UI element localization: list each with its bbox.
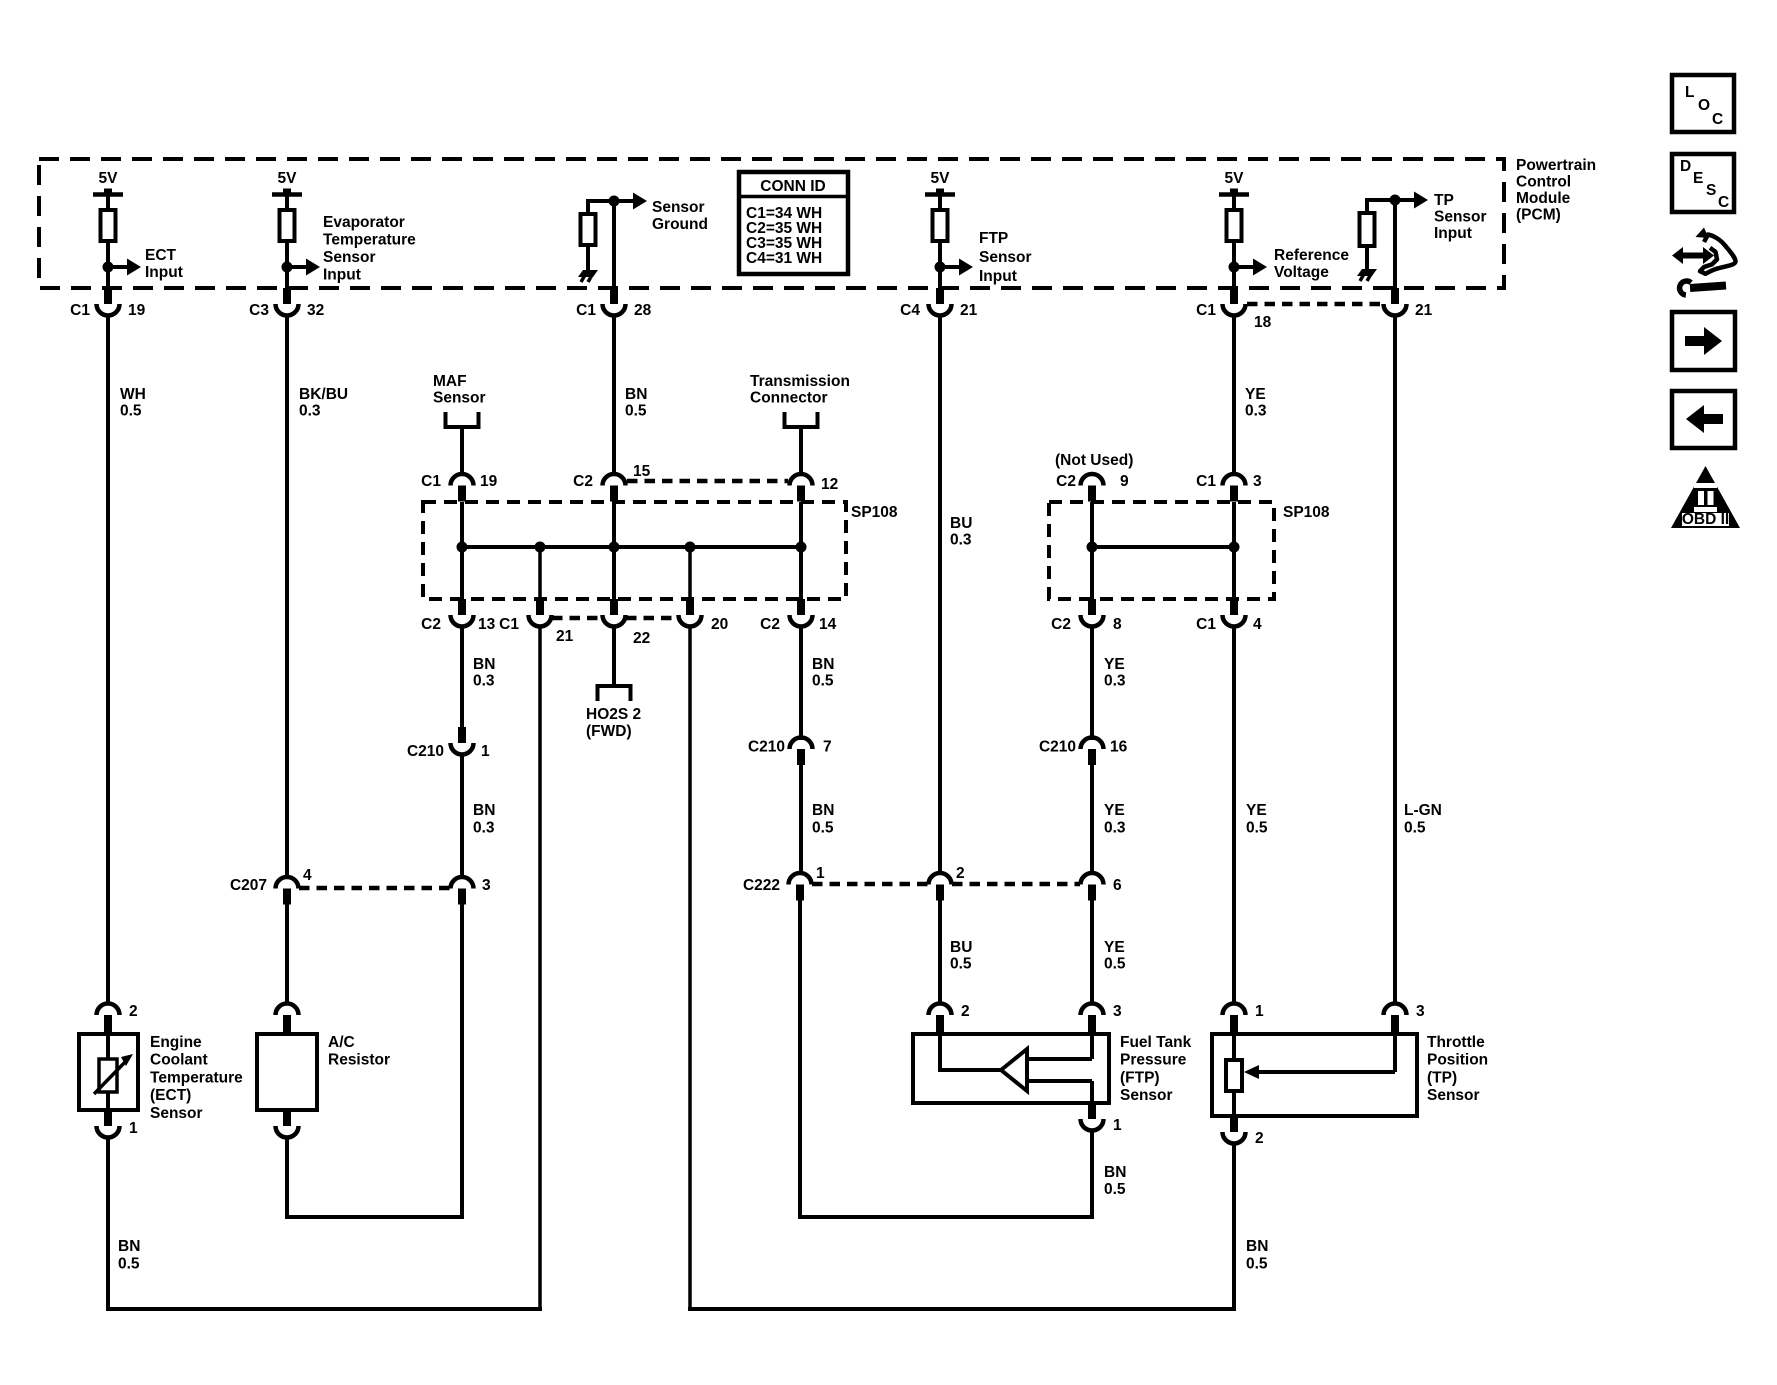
- wire ECT return: [106, 1137, 110, 1311]
- svg-text:0.3: 0.3: [1104, 820, 1126, 837]
- dashed link C207: [299, 886, 450, 891]
- svg-text:Sensor: Sensor: [979, 249, 1032, 266]
- svg-text:7: 7: [823, 739, 832, 756]
- junction dot 1: [457, 542, 468, 553]
- ECT internal wire: [106, 1034, 110, 1110]
- svg-text:BN: BN: [1246, 1238, 1268, 1255]
- svg-text:C210: C210: [1039, 739, 1076, 756]
- svg-text:BN: BN: [625, 386, 647, 403]
- svg-text:C1: C1: [1196, 616, 1216, 633]
- ECT bottom connector pin 1: [104, 1110, 112, 1126]
- svg-text:C1: C1: [576, 302, 596, 319]
- svg-text:YE: YE: [1104, 656, 1125, 673]
- svg-text:4: 4: [1253, 616, 1262, 633]
- svg-text:0.3: 0.3: [1104, 673, 1126, 690]
- CONN ID table: [739, 172, 848, 274]
- svg-text:5V: 5V: [99, 170, 119, 187]
- wire L-GN: [1393, 315, 1397, 1004]
- ground symbol PCM: [578, 270, 598, 277]
- svg-text:Sensor: Sensor: [433, 390, 486, 407]
- dashed link 21-22: [552, 616, 602, 621]
- svg-text:O: O: [1698, 97, 1710, 114]
- AC resistor top connector: [283, 1015, 291, 1034]
- svg-text:14: 14: [819, 616, 837, 633]
- TP top connector pin 1: [1230, 1015, 1238, 1034]
- svg-text:HO2S 2: HO2S 2: [586, 706, 641, 723]
- wire c207-3 down: [460, 904, 464, 1219]
- bus wire C1-21 leg: [538, 547, 542, 599]
- wire BN 0.3 upper: [460, 626, 464, 727]
- svg-text:BN: BN: [473, 802, 495, 819]
- svg-text:0.5: 0.5: [812, 820, 834, 837]
- junction dot 2: [535, 542, 546, 553]
- svg-text:A/C: A/C: [328, 1034, 355, 1051]
- svg-text:SP108: SP108: [851, 504, 898, 521]
- svg-text:C207: C207: [230, 877, 267, 894]
- TP bottom connector pin 2: [1230, 1116, 1238, 1132]
- svg-text:0.3: 0.3: [299, 403, 321, 420]
- svg-text:4: 4: [303, 867, 312, 884]
- wire FTP return: [1090, 1130, 1094, 1219]
- svg-text:Evaporator: Evaporator: [323, 214, 405, 231]
- wire evap to AC resistor: [285, 904, 289, 1004]
- svg-text:Sensor: Sensor: [1427, 1087, 1480, 1104]
- dashed link C222 1-2: [812, 882, 928, 887]
- FTP sensor box: [913, 1034, 1109, 1103]
- connector C222 pin 1: [789, 873, 812, 884]
- svg-text:Transmission: Transmission: [750, 373, 850, 390]
- svg-text:BK/BU: BK/BU: [299, 386, 348, 403]
- svg-text:C222: C222: [743, 877, 780, 894]
- junction dot 5: [796, 542, 807, 553]
- svg-text:21: 21: [556, 628, 574, 645]
- FTP top connector pin 2: [936, 1015, 944, 1034]
- bus wire 20 leg: [688, 547, 692, 599]
- connector C210 pin 16: [1081, 738, 1104, 749]
- svg-text:Sensor: Sensor: [1120, 1087, 1173, 1104]
- wire BN 0.3 lower: [460, 754, 464, 879]
- connector C1 pin 3: [1223, 474, 1246, 486]
- svg-text:Input: Input: [145, 264, 183, 281]
- svg-text:Coolant: Coolant: [150, 1052, 208, 1069]
- icon LOC box: [1672, 75, 1734, 132]
- svg-text:0.5: 0.5: [1104, 956, 1126, 973]
- dashed link 22-20: [626, 616, 678, 621]
- svg-text:L-GN: L-GN: [1404, 802, 1442, 819]
- svg-text:C1: C1: [421, 473, 441, 490]
- wire AC return: [285, 1137, 289, 1219]
- splice bus left: [462, 545, 801, 549]
- svg-text:5V: 5V: [931, 170, 951, 187]
- FTP top connector pin 3: [1088, 1015, 1096, 1034]
- connector C2 pin 8: [1088, 599, 1096, 615]
- reference voltage arrow: [1229, 262, 1240, 273]
- TP internal potentiometer: [1232, 1034, 1236, 1060]
- svg-text:1: 1: [816, 865, 825, 882]
- svg-text:Connector: Connector: [750, 390, 828, 407]
- connector C2 pin 13: [458, 599, 466, 615]
- svg-text:20: 20: [711, 616, 728, 633]
- svg-text:BN: BN: [812, 802, 834, 819]
- svg-text:21: 21: [1415, 302, 1433, 319]
- svg-text:Input: Input: [323, 267, 361, 284]
- FTP bottom connector pin 1: [1088, 1103, 1096, 1119]
- svg-text:21: 21: [960, 302, 978, 319]
- svg-text:0.5: 0.5: [625, 403, 647, 420]
- splice bus right: [1092, 545, 1234, 549]
- FTP internal symbol: [938, 1034, 942, 1070]
- svg-text:Sensor: Sensor: [150, 1105, 203, 1122]
- wire BU 0.5: [938, 900, 942, 1004]
- svg-text:1: 1: [1255, 1003, 1264, 1020]
- svg-text:Sensor: Sensor: [652, 199, 705, 216]
- junction dot 6: [1087, 542, 1098, 553]
- svg-text:16: 16: [1110, 739, 1128, 756]
- svg-text:2: 2: [129, 1003, 138, 1020]
- svg-text:C1: C1: [499, 616, 519, 633]
- svg-text:C210: C210: [748, 739, 785, 756]
- connector C222 pin 6: [1081, 873, 1104, 884]
- wire YE upper: [1232, 315, 1236, 476]
- svg-text:L: L: [1685, 84, 1694, 101]
- svg-text:(ECT): (ECT): [150, 1087, 191, 1104]
- svg-text:Temperature: Temperature: [323, 232, 416, 249]
- svg-text:5V: 5V: [278, 170, 298, 187]
- connector C1 pin 21 lower: [536, 599, 544, 615]
- SP108 right box: [1049, 502, 1274, 599]
- svg-text:19: 19: [128, 302, 146, 319]
- AC resistor bottom connector: [283, 1110, 291, 1126]
- wire MAF to connector: [460, 427, 464, 476]
- junction dot 7: [1229, 542, 1240, 553]
- wire 21 to ECT return: [538, 626, 542, 1311]
- svg-text:WH: WH: [120, 386, 146, 403]
- svg-text:Control: Control: [1516, 174, 1571, 191]
- svg-text:FTP: FTP: [979, 230, 1008, 247]
- dashed link C2-15 to 12: [627, 479, 788, 484]
- icon back arrow box: [1672, 391, 1735, 448]
- icon wrench-arrow: [1682, 253, 1704, 259]
- connector C1 pin 28: [610, 288, 618, 304]
- dashed link C1-18 to 21: [1247, 302, 1382, 307]
- svg-text:BN: BN: [473, 656, 495, 673]
- svg-text:0.5: 0.5: [1404, 820, 1426, 837]
- svg-text:0.5: 0.5: [950, 956, 972, 973]
- svg-text:Fuel Tank: Fuel Tank: [1120, 1034, 1192, 1051]
- svg-text:8: 8: [1113, 616, 1122, 633]
- TP input resistor stub: [1367, 198, 1395, 202]
- bus wire C2-15 leg: [612, 502, 616, 599]
- wire TP return: [1232, 1143, 1236, 1311]
- connector C2 pin 15: [603, 474, 626, 486]
- wire YE 0.3 to C222-6: [1090, 765, 1094, 875]
- svg-text:YE: YE: [1104, 802, 1125, 819]
- ECT variable resistor: [99, 1059, 117, 1092]
- svg-text:18: 18: [1254, 314, 1272, 331]
- svg-text:0.5: 0.5: [1246, 820, 1268, 837]
- svg-text:Throttle: Throttle: [1427, 1034, 1485, 1051]
- svg-text:S: S: [1706, 182, 1716, 199]
- svg-text:12: 12: [821, 476, 838, 493]
- wire bottom left run: [106, 1307, 542, 1311]
- svg-text:(FWD): (FWD): [586, 723, 632, 740]
- svg-text:(FTP): (FTP): [1120, 1069, 1160, 1086]
- svg-text:0.5: 0.5: [812, 673, 834, 690]
- svg-text:C4=31 WH: C4=31 WH: [746, 250, 822, 267]
- svg-text:D: D: [1680, 158, 1691, 175]
- connector C210 pin 7: [790, 738, 813, 749]
- ground symbol TP: [1357, 269, 1377, 276]
- svg-text:3: 3: [1416, 1003, 1425, 1020]
- wire BU upper: [938, 315, 942, 875]
- right bus leg 2: [1232, 502, 1236, 599]
- svg-text:1: 1: [481, 743, 490, 760]
- AC resistor box: [257, 1034, 317, 1110]
- svg-text:1: 1: [129, 1120, 138, 1137]
- svg-text:Input: Input: [979, 268, 1017, 285]
- svg-text:BN: BN: [1104, 1164, 1126, 1181]
- svg-text:Reference: Reference: [1274, 247, 1349, 264]
- icon OBD II triangle: [1671, 466, 1740, 528]
- SP108 left box: [423, 502, 846, 599]
- wire FTP bottom run: [798, 1215, 1094, 1219]
- svg-text:Position: Position: [1427, 1052, 1488, 1069]
- svg-text:C1: C1: [70, 302, 90, 319]
- svg-text:C4: C4: [900, 302, 920, 319]
- svg-text:Sensor: Sensor: [1434, 209, 1487, 226]
- FTP input arrow: [935, 262, 946, 273]
- connector C4 pin 21: [936, 288, 944, 304]
- svg-text:(PCM): (PCM): [1516, 207, 1561, 224]
- svg-text:C: C: [1712, 111, 1723, 128]
- svg-text:C1: C1: [1196, 302, 1216, 319]
- bus wire MAF leg: [460, 502, 464, 599]
- svg-text:2: 2: [1255, 1130, 1264, 1147]
- connector C1 pin 19: [104, 288, 112, 304]
- PCM module outline box: [39, 159, 1504, 288]
- Evaporator input arrow: [282, 262, 293, 273]
- svg-text:6: 6: [1113, 877, 1122, 894]
- HO2S fork: [598, 686, 631, 701]
- svg-text:Powertrain: Powertrain: [1516, 157, 1596, 174]
- connector C2 pin 9: [1081, 474, 1104, 486]
- svg-text:Pressure: Pressure: [1120, 1052, 1187, 1069]
- svg-text:Input: Input: [1434, 225, 1472, 242]
- svg-text:3: 3: [482, 877, 491, 894]
- svg-text:CONN ID: CONN ID: [760, 178, 825, 195]
- dashed link C222 2-6: [952, 882, 1080, 887]
- svg-text:SP108: SP108: [1283, 504, 1330, 521]
- svg-text:TP: TP: [1434, 192, 1454, 209]
- connector C207 pin 4: [276, 877, 299, 889]
- svg-text:Ground: Ground: [652, 216, 708, 233]
- TP sensor box: [1212, 1034, 1417, 1116]
- wire YE 0.3 to C210-16: [1090, 626, 1094, 740]
- right bus leg 1: [1090, 502, 1094, 599]
- wire transmission to connector: [799, 427, 803, 476]
- svg-text:1: 1: [1113, 1117, 1122, 1134]
- connector C207 pin 3: [451, 877, 474, 889]
- transmission fork: [785, 412, 818, 427]
- svg-text:C: C: [1718, 194, 1729, 211]
- svg-text:3: 3: [1113, 1003, 1122, 1020]
- svg-text:32: 32: [307, 302, 324, 319]
- svg-text:0.5: 0.5: [118, 1256, 140, 1273]
- wire BN 0.5 to C210-7: [799, 626, 803, 740]
- wire sensor ground upper: [612, 201, 616, 288]
- ECT Input arrow: [103, 262, 114, 273]
- TP input junction arrow: [1390, 195, 1401, 206]
- svg-text:YE: YE: [1246, 802, 1267, 819]
- svg-text:9: 9: [1120, 473, 1129, 490]
- svg-text:MAF: MAF: [433, 373, 467, 390]
- connector C1 pin 18: [1230, 288, 1238, 304]
- connector C1 pin 19 mid: [451, 474, 474, 486]
- svg-text:(Not Used): (Not Used): [1055, 452, 1133, 469]
- connector C2 pin 14: [797, 599, 805, 615]
- wire YE 0.5 to FTP: [1090, 900, 1094, 1004]
- svg-text:ECT: ECT: [145, 247, 177, 264]
- svg-text:Resistor: Resistor: [328, 1052, 390, 1069]
- svg-text:C2: C2: [760, 616, 780, 633]
- svg-text:28: 28: [634, 302, 652, 319]
- ECT sensor box: [79, 1034, 138, 1110]
- svg-text:0.3: 0.3: [473, 820, 495, 837]
- svg-text:C3: C3: [249, 302, 269, 319]
- svg-text:BN: BN: [812, 656, 834, 673]
- icon DESC box: [1672, 154, 1734, 212]
- TP top connector pin 3: [1391, 1015, 1399, 1034]
- svg-text:0.3: 0.3: [1245, 403, 1267, 420]
- svg-text:Engine: Engine: [150, 1034, 202, 1051]
- svg-text:BN: BN: [118, 1238, 140, 1255]
- connector pin 20: [686, 599, 694, 615]
- svg-text:BU: BU: [950, 939, 972, 956]
- svg-text:C1: C1: [1196, 473, 1216, 490]
- connector pin 22: [610, 599, 618, 615]
- wire BN to splice: [612, 315, 616, 476]
- svg-text:0.3: 0.3: [950, 532, 972, 549]
- bus wire 12 leg: [799, 502, 803, 599]
- svg-text:15: 15: [633, 463, 651, 480]
- svg-text:YE: YE: [1104, 939, 1125, 956]
- wire WH ECT: [106, 315, 110, 1004]
- icon forward arrow box: [1672, 312, 1735, 370]
- svg-text:Temperature: Temperature: [150, 1069, 243, 1086]
- wire BK/BU: [285, 315, 289, 879]
- svg-text:E: E: [1693, 170, 1703, 187]
- wire YE 0.5 long: [1232, 626, 1236, 1004]
- wire 20 to TP return: [688, 626, 692, 1311]
- wire 22 to HO2S: [612, 626, 616, 686]
- wire TP bottom run: [688, 1307, 1236, 1311]
- connector C3 pin 32: [283, 288, 291, 304]
- wire AC bottom run: [285, 1215, 464, 1219]
- svg-text:Module: Module: [1516, 190, 1571, 207]
- wire C222-1 down: [798, 900, 802, 1219]
- connector pin 12: [790, 474, 813, 486]
- svg-text:C2: C2: [421, 616, 441, 633]
- svg-text:2: 2: [956, 865, 965, 882]
- svg-text:0.5: 0.5: [1246, 1256, 1268, 1273]
- wire TP input upper: [1393, 200, 1397, 288]
- connector C222 pin 2: [929, 873, 952, 884]
- connector C1 pin 4: [1230, 599, 1238, 615]
- connector pin 21 right: [1391, 288, 1399, 304]
- svg-text:0.3: 0.3: [473, 673, 495, 690]
- svg-text:19: 19: [480, 473, 498, 490]
- MAF sensor fork: [446, 412, 479, 427]
- svg-text:5V: 5V: [1225, 170, 1245, 187]
- svg-text:22: 22: [633, 630, 650, 647]
- svg-text:3: 3: [1253, 473, 1262, 490]
- svg-text:BU: BU: [950, 515, 972, 532]
- connector C210 pin 1: [458, 727, 466, 743]
- svg-text:(TP): (TP): [1427, 1069, 1457, 1086]
- svg-text:C2: C2: [573, 473, 593, 490]
- svg-text:0.5: 0.5: [1104, 1181, 1126, 1198]
- svg-text:C2: C2: [1051, 616, 1071, 633]
- wire BN 0.5 to C222: [799, 765, 803, 875]
- svg-text:OBD II: OBD II: [1682, 511, 1729, 528]
- svg-text:13: 13: [478, 616, 496, 633]
- sensor ground resistor stub: [588, 199, 614, 203]
- sensor ground junction arrow: [609, 196, 620, 207]
- ECT sensor top connector pin 2: [104, 1015, 112, 1034]
- junction dot 3: [609, 542, 620, 553]
- svg-text:YE: YE: [1245, 386, 1266, 403]
- svg-text:Voltage: Voltage: [1274, 264, 1329, 281]
- svg-text:2: 2: [961, 1003, 970, 1020]
- svg-text:Sensor: Sensor: [323, 249, 376, 266]
- junction dot 4: [685, 542, 696, 553]
- svg-text:C210: C210: [407, 743, 444, 760]
- svg-text:0.5: 0.5: [120, 403, 142, 420]
- svg-text:C2: C2: [1056, 473, 1076, 490]
